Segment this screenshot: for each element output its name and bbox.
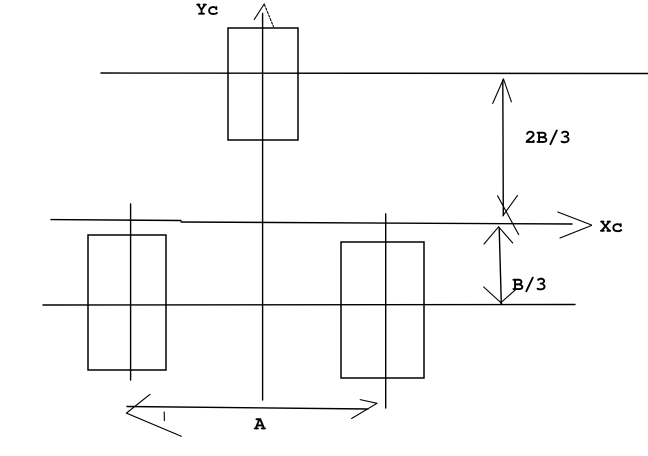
top horizontal line [101, 72, 648, 75]
dimension B/3 bottom arrowhead right stroke [501, 289, 517, 303]
dimension 2B/3 top arrowhead left stroke [493, 79, 504, 103]
top rectangle [228, 28, 298, 140]
label Yc [196, 4, 218, 15]
dimension B/3 top arrowhead left stroke [484, 227, 499, 244]
dimension 2B/3 bottom arrowhead slash (long) [498, 196, 519, 235]
right rectangle [341, 242, 424, 378]
dimension B/3 bottom arrowhead left stroke [484, 287, 502, 304]
label 2B/3 [526, 130, 570, 146]
dimension A right arrowhead lower slash [352, 403, 377, 418]
dimension B/3 vertical line [499, 228, 501, 304]
label B/3 [513, 277, 546, 293]
Xc arrowhead upper stroke [558, 212, 592, 225]
dimension A left arrowhead lower slash [126, 413, 181, 436]
label Xc [600, 221, 622, 233]
left rectangle [88, 235, 166, 370]
dimension 2B/3 top arrowhead right stroke [504, 79, 512, 102]
right rectangle centerline [385, 214, 387, 408]
bottom horizontal line [43, 304, 575, 307]
Xc arrowhead lower stroke [560, 226, 592, 239]
label A [254, 418, 266, 429]
dimension A right arrowhead upper stroke [360, 400, 377, 404]
Xc axis segment 1 [51, 219, 181, 222]
dimension A left arrowhead upper stroke [126, 394, 150, 413]
Xc axis segment 2 [181, 222, 572, 224]
dimension A small tick [163, 412, 165, 421]
Yc axis arrowhead right stroke [264, 5, 273, 27]
dimension 2B/3 bottom arrowhead right stroke [503, 195, 518, 216]
dimension B/3 top arrowhead right stroke [499, 227, 513, 243]
Yc axis line [262, 14, 264, 401]
dimension 2B/3 vertical line [502, 80, 505, 216]
Yc axis arrowhead left stroke [254, 4, 264, 20]
dimension A horizontal line [127, 407, 368, 410]
left rectangle centerline [130, 204, 132, 380]
